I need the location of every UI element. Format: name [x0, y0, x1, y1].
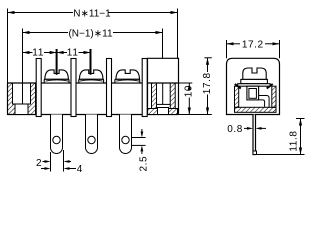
side view clamp elbow [259, 96, 270, 108]
svg-text:2.5: 2.5 [139, 156, 150, 172]
svg-text:11: 11 [32, 48, 44, 59]
dimension N*11-1 top line [8, 12, 178, 14]
pin 1 hole [53, 136, 60, 143]
front view left edge [7, 83, 9, 115]
dimension 11 first span right arrow [50, 51, 57, 54]
right end section hatched left wall [152, 83, 157, 109]
dimension 11 (first span) line [23, 52, 57, 54]
dimension 17.2 right extension [279, 40, 281, 58]
dimension 11 (second span) line [57, 52, 91, 54]
dimension 2 leader and arrows [43, 161, 48, 163]
dimension 11.8 bottom extension from pin [257, 154, 305, 156]
right end block seat line [148, 82, 179, 84]
side view screw shaft [247, 86, 259, 100]
left end section recess floor notch [15, 104, 28, 115]
right end recess floor line [157, 103, 171, 105]
dimension (N-1)*11 left extension line [22, 29, 24, 105]
dimension (N-1)*11 line [23, 32, 163, 34]
dimension N*11-1 right extension line [177, 9, 179, 59]
dimension 2 extension line at pin1 left [50, 152, 52, 172]
side view screw head [243, 68, 266, 79]
dimension (N-1)*11 right extension line [162, 29, 164, 105]
side view base hatch band [235, 107, 277, 112]
right end section hatched right wall [170, 83, 175, 109]
front view body bottom line [8, 114, 179, 116]
dimension (N-1)*11 left arrow [23, 31, 30, 34]
side view body [227, 58, 280, 114]
svg-text:17.8: 17.8 [202, 72, 213, 94]
dimension 10 line lower [188, 98, 190, 115]
dimension N*11-1 left arrow [8, 11, 15, 14]
svg-text:(N−1)∗11: (N−1)∗11 [68, 29, 112, 40]
right end block outline [148, 58, 179, 114]
screw 1 washer [44, 79, 69, 83]
dimension 17.8 top tick [204, 57, 211, 59]
dimension 4 extension line right of pin1 [63, 150, 65, 172]
screw 3 washer wave [116, 80, 139, 81]
screw 2 washer wave [80, 80, 103, 81]
screw 3 washer [115, 79, 140, 83]
dimension 11.8 line [300, 119, 302, 155]
screw 1 dome [45, 70, 69, 79]
screw 1 washer wave [46, 80, 69, 81]
dimension 2.5 lower arrow [141, 150, 143, 154]
screw 2 wire lead / extension tick [90, 49, 92, 76]
barrier wall B4 [142, 59, 147, 117]
side view washer plate [241, 79, 268, 83]
dimension 17.8 line upper [207, 58, 209, 72]
dimension 17.2 left extension [226, 40, 228, 58]
dimension 17.8 arrows [206, 58, 209, 65]
svg-text:2: 2 [36, 158, 42, 169]
dimension 11 second span right arrow [84, 51, 91, 54]
dimension N*11-1 left extension line [7, 9, 9, 84]
svg-text:10: 10 [184, 85, 195, 97]
screw 3 dome with open slot [116, 70, 140, 79]
dimension 2.5 bottom tick [132, 144, 146, 146]
left end section hatched right wall [28, 83, 36, 115]
front view seat line [8, 82, 179, 84]
side view right funnel [267, 84, 273, 88]
svg-text:0.8: 0.8 [227, 124, 243, 135]
dimension 4 line and arrows [41, 168, 45, 170]
dimension 17.2 arrows [227, 42, 234, 45]
pin 3 body [120, 115, 132, 154]
dimension 10 line upper [188, 83, 190, 85]
left end section hatched left wall [8, 83, 16, 115]
svg-text:17.2: 17.2 [242, 40, 264, 51]
right end recess extension continuation [162, 83, 164, 104]
dimension N*11-1 right arrow [171, 11, 178, 14]
side view clamp right hatched wall [272, 86, 276, 107]
right end bottom white notch [158, 108, 169, 115]
screw 2 wire in slot [90, 69, 92, 75]
dimension 17.8 line lower [207, 95, 209, 115]
dimension 17.8 bottom tick [179, 114, 212, 116]
svg-text:11.8: 11.8 [288, 130, 299, 151]
side view pin [253, 115, 256, 155]
side view screw shaft inner [249, 89, 257, 99]
barrier wall B1 [36, 59, 41, 117]
pin 2 body [86, 115, 98, 154]
barrier wall B3 [107, 59, 112, 117]
screw 2 dome [79, 70, 103, 79]
side view clamp left hatched wall [235, 86, 239, 107]
right end section bottom hatch band [148, 109, 178, 115]
side view pin foot [253, 151, 257, 155]
pin 1 body [51, 115, 63, 154]
dimension 2.5 top tick [132, 137, 146, 139]
dimension 10 top tick [179, 82, 193, 84]
pin 3 hole [122, 136, 129, 143]
dimension 11 first span left arrow [23, 51, 30, 54]
dimension 2.5 upper arrow [141, 129, 143, 133]
dimension 11.8 arrows [299, 119, 302, 126]
screw 1 wire lead / extension tick [56, 49, 58, 76]
screw 2 washer [79, 79, 104, 83]
side view left funnel [235, 84, 241, 88]
barrier wall B2 [71, 59, 76, 117]
dimension 17.2 line [227, 43, 280, 45]
pin 2 hole [88, 136, 95, 143]
svg-text:N∗11−1: N∗11−1 [73, 9, 111, 20]
svg-text:4: 4 [77, 164, 83, 175]
dimension (N-1)*11 right arrow [156, 31, 163, 34]
dimension 11.8 top tick [296, 118, 305, 120]
screw 1 wire in slot [56, 69, 58, 75]
dimension 0.8 arrows [244, 127, 247, 129]
dimension 10 arrows [188, 83, 191, 90]
side view clamp top plate [238, 84, 270, 87]
svg-text:11: 11 [67, 48, 79, 59]
dimension 11 second span left arrow [57, 51, 64, 54]
